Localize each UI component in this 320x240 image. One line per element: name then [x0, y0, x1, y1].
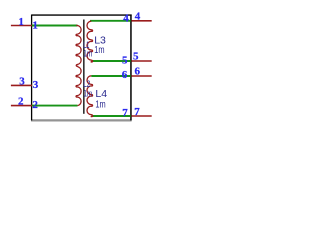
svg-text:6: 6	[135, 66, 141, 78]
svg-text:7: 7	[134, 106, 140, 118]
svg-text:1: 1	[32, 20, 38, 32]
svg-text:4: 4	[135, 11, 141, 23]
svg-text:5: 5	[122, 55, 128, 67]
svg-text:1m: 1m	[84, 88, 93, 99]
svg-text:1: 1	[18, 16, 24, 28]
svg-text:4: 4	[123, 13, 129, 25]
svg-text:6: 6	[122, 69, 128, 81]
svg-text:7: 7	[122, 107, 128, 119]
svg-text:5: 5	[133, 51, 139, 63]
svg-text:1m: 1m	[94, 44, 104, 56]
svg-text:2: 2	[32, 99, 38, 111]
svg-text:2: 2	[18, 96, 24, 108]
svg-text:1m: 1m	[95, 98, 105, 110]
svg-text:1m: 1m	[83, 48, 92, 59]
svg-text:3: 3	[33, 79, 39, 91]
svg-text:3: 3	[19, 75, 25, 87]
